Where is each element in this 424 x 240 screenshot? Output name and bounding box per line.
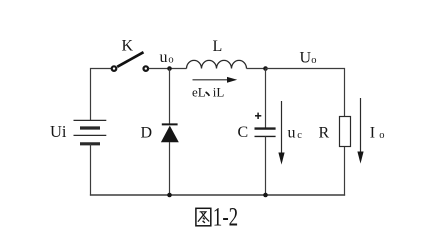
node: capacitor to bottom rail bbox=[263, 193, 268, 198]
svg-text:o: o bbox=[379, 130, 384, 141]
ideographic comma bbox=[206, 92, 210, 96]
label + bbox=[255, 113, 261, 119]
wire: R bottom to bottom rail bbox=[344, 147, 346, 196]
node Uo junction dot bbox=[263, 66, 268, 71]
svg-text:K: K bbox=[122, 38, 134, 55]
arrow eL iL bbox=[193, 77, 238, 83]
wire: diode branch upper bbox=[169, 69, 171, 125]
inductor L bbox=[187, 60, 247, 68]
capacitor C bbox=[255, 129, 276, 137]
wire: capacitor branch lower bbox=[265, 136, 267, 195]
resistor R bbox=[340, 117, 351, 147]
wire: top rail node to R branch bbox=[266, 69, 345, 117]
svg-text:R: R bbox=[319, 125, 330, 142]
svg-text:u: u bbox=[160, 49, 168, 66]
svg-text:u: u bbox=[288, 125, 296, 142]
wire: left vertical from switch level down to battery top bbox=[91, 69, 112, 121]
battery Ui bbox=[74, 120, 107, 143]
svg-text:1-2: 1-2 bbox=[213, 203, 238, 230]
svg-text:iL: iL bbox=[213, 85, 225, 100]
wire: diode branch lower bbox=[169, 142, 171, 196]
switch K bbox=[112, 52, 148, 71]
svg-text:Ui: Ui bbox=[50, 122, 67, 141]
wire: capacitor branch upper bbox=[265, 69, 267, 129]
diode D bbox=[161, 124, 179, 142]
svg-text:c: c bbox=[297, 130, 302, 141]
svg-text:I: I bbox=[370, 125, 375, 142]
wire: switch to inductor through node uo bbox=[149, 68, 187, 70]
wire: bottom rail bbox=[90, 194, 345, 196]
svg-text:L: L bbox=[213, 38, 223, 55]
wire: left vertical from battery bottom to bottom rail bbox=[90, 144, 92, 196]
svg-text:U: U bbox=[300, 50, 312, 67]
svg-text:eL: eL bbox=[192, 85, 206, 100]
svg-text:D: D bbox=[141, 125, 153, 142]
caption figure 1-2 glyph tu bbox=[196, 208, 211, 226]
node uo junction dot bbox=[167, 66, 172, 71]
wire: inductor to node Uo bbox=[247, 68, 266, 70]
node: diode to bottom rail bbox=[167, 193, 172, 198]
svg-text:C: C bbox=[238, 124, 249, 141]
svg-text:o: o bbox=[311, 55, 316, 66]
svg-text:o: o bbox=[168, 55, 173, 66]
arrow Io bbox=[357, 98, 363, 164]
arrow uc bbox=[278, 101, 284, 165]
